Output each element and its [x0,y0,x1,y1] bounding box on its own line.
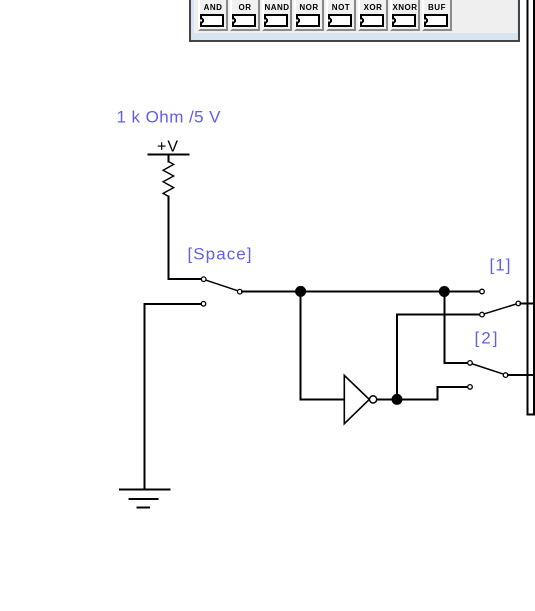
button OR [230,0,260,31]
toolbar strip [194,0,517,33]
switch 2 throw-down contact [468,385,473,390]
wire rail to resistor [167,154,169,161]
button NOR [294,0,324,31]
wire node B down to switch2 top throw [444,292,467,363]
wire switch2 common to bus [508,374,535,376]
switch 1 throw-up contact [480,289,485,294]
switch Space throw-up contact [201,277,206,282]
button XOR [358,0,388,31]
switch 1 common contact [516,301,521,306]
inverter U1 bubble [370,396,377,403]
svg-text:[Space]: [Space] [188,245,252,264]
wire node C up to switch1 bottom throw [397,315,479,400]
ground bar 3 [138,507,150,509]
wire throw-down to ground [144,304,201,490]
switch 2 common contact [503,373,508,378]
button NAND [262,0,292,31]
button AND [198,0,228,31]
main wire common to switch1 top [242,291,479,293]
switch Space common contact [238,289,243,294]
bus bar component (right edge) [528,0,535,414]
switch 1 throw-down contact [480,312,485,317]
wire node C to switch2 bottom throw [397,387,467,400]
node A junction dot [295,286,306,297]
switch 2 lever [472,364,503,374]
wire resistor to switch elbow [168,196,201,279]
power rail +V [149,153,189,155]
node C junction dot [392,394,403,405]
wire switch1 common to bus [521,302,535,304]
switch 2 throw-up contact [468,361,473,366]
switch Space throw-down contact [201,302,206,307]
switch 1 lever [484,304,516,314]
inverter U1 triangle [344,375,369,423]
resistor R (1 kOhm) [163,162,174,197]
svg-text:[1]: [1] [490,256,511,275]
toolbar panel [189,0,520,42]
ground bar 2 [129,498,157,500]
button XNOR [390,0,420,31]
switch Space lever [206,280,238,291]
button NOT [326,0,356,31]
svg-text:1 k Ohm /5 V: 1 k Ohm /5 V [117,107,222,126]
svg-text:+V: +V [157,139,178,156]
svg-text:[2]: [2] [475,329,498,348]
wire bubble to node C [377,398,397,400]
ground bar 1 [120,489,170,491]
button BUF [422,0,452,31]
wire node A down to inverter input [301,291,345,399]
node B junction dot [439,286,450,297]
